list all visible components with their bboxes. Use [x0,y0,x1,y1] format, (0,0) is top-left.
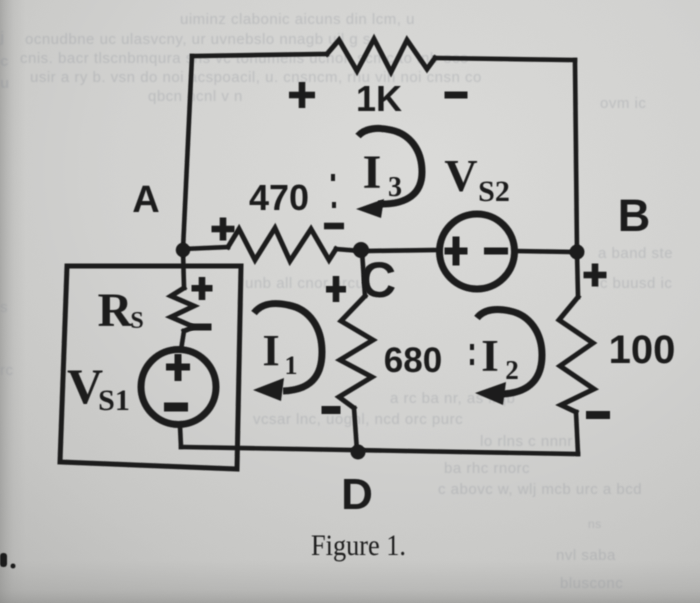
svg-text:1K: 1K [356,78,402,119]
wire: 100 down to bottom corner [576,412,578,454]
VS1 minus [164,403,188,412]
svg-text:vcsar lnc, uognl, ncd orc purc: vcsar lnc, uognl, ncd orc purc [253,411,463,428]
svg-text:I: I [363,146,382,199]
svg-text:A: A [132,179,159,221]
VS2 minus [484,248,508,255]
colon artifact left of I2 [470,344,474,350]
svg-text:680: 680 [384,341,442,380]
wire: right vertical to node B [575,60,577,252]
I3 arrowhead [356,199,384,218]
wire: 680 to node D [354,408,357,451]
svg-text:ns: ns [588,517,602,531]
svg-text:ovm ic: ovm ic [600,95,646,112]
wire: 470 to node C [336,249,361,251]
svg-text:rc: rc [0,362,14,379]
470 minus [324,223,344,230]
svg-text:uiminz clabonic aicuns din lcm: uiminz clabonic aicuns din lcm, u [180,11,415,28]
svg-text:I: I [481,331,499,381]
1K plus [289,92,315,99]
voltage source VS1 circle [141,350,216,425]
svg-text:470: 470 [249,177,309,218]
svg-text:s: s [0,299,8,316]
svg-text:c: c [0,53,9,70]
svg-text:100: 100 [609,328,676,372]
svg-text:nvl saba: nvl saba [556,547,616,564]
svg-text:ba rhc rnorc: ba rhc rnorc [444,460,530,477]
polarity signs [164,82,610,419]
svg-text:c abovc w, wlj mcb urc a bcd: c abovc w, wlj mcb urc a bcd [438,481,642,498]
svg-text:D: D [341,470,373,519]
svg-text:I: I [262,326,279,375]
mesh loop I1 arc [254,304,322,391]
svg-text:ocnudbne uc ulasvcny, ur uvneb: ocnudbne uc ulasvcny, ur uvnebslo nnagb … [25,31,371,48]
wire: RS to VS1 [181,331,184,350]
svg-text:S: S [130,308,143,334]
RS plus [192,285,213,292]
wire: node B down to 100 [577,252,578,297]
resistor R 100 zigzag [559,297,594,412]
680 plus [326,286,346,293]
mesh current loops [254,128,542,394]
svg-text:qbcn ncnl v n: qbcn ncnl v n [148,88,243,105]
svg-text:C: C [360,252,396,308]
colon artifact left of I3 [331,174,335,181]
wire: VS2 to node B [514,251,577,252]
mesh loop I2 arc [477,309,542,394]
svg-text:blusconc: blusconc [560,575,623,592]
stray mark bottom-left "a." [0,553,7,567]
470 plus [212,226,235,233]
wire: node C down to 680 [362,251,365,296]
1K minus [445,92,468,99]
svg-text:lo rlns c nnnr: lo rlns c nnnr [480,433,573,450]
wire: node A to 470 [183,247,228,249]
svg-text:j: j [0,29,5,46]
source box outline [60,266,241,469]
mesh loop I3 arc [358,128,422,204]
svg-text:2: 2 [505,355,519,385]
circuit ink [60,39,594,469]
wire: top left horizontal [192,54,327,56]
100 minus [586,411,610,419]
node C junction dot [353,242,369,258]
wire: top right horizontal [435,58,575,60]
wire: node A down into box [183,250,184,288]
resistor R 1K zigzag [327,39,435,72]
svg-text:R: R [98,284,134,337]
svg-text:S1: S1 [98,384,130,417]
I1 arrowhead [253,378,284,401]
I2 arrowhead [475,382,506,405]
svg-text:ic buusd ic: ic buusd ic [596,275,672,292]
resistor R 680 zigzag [339,296,373,408]
voltage source VS2 circle [440,214,515,289]
svg-text:usir a ry b. vsn do noi acspoa: usir a ry b. vsn do noi acspoacil, u. cn… [30,69,482,86]
svg-text:S2: S2 [478,175,510,208]
svg-text:1: 1 [285,351,298,380]
node B junction dot [570,245,585,260]
100 plus [584,272,607,279]
svg-text:Figure 1.: Figure 1. [311,529,406,562]
wire: node C to VS2 [361,250,440,251]
680 minus [322,406,341,414]
wire: bottom horizontal [181,447,578,454]
svg-text:unb all cnor arcui: unb all cnor arcui [245,275,368,292]
resistor RS zigzag [171,288,194,331]
svg-text:3: 3 [388,172,402,203]
node D junction dot [351,445,366,460]
wire: left vertical (top corner to node A) [183,56,192,249]
svg-text:V: V [444,150,477,201]
VS1 plus [166,364,190,371]
RS minus [191,324,212,331]
svg-text:a band ste: a band ste [598,245,673,262]
svg-text:B: B [618,190,651,241]
node A junction dot [176,243,190,257]
wire: VS1 bottom to corner [180,426,181,447]
svg-text:u: u [0,75,10,92]
resistor R 470 zigzag [228,228,336,261]
VS2 plus [445,248,468,255]
